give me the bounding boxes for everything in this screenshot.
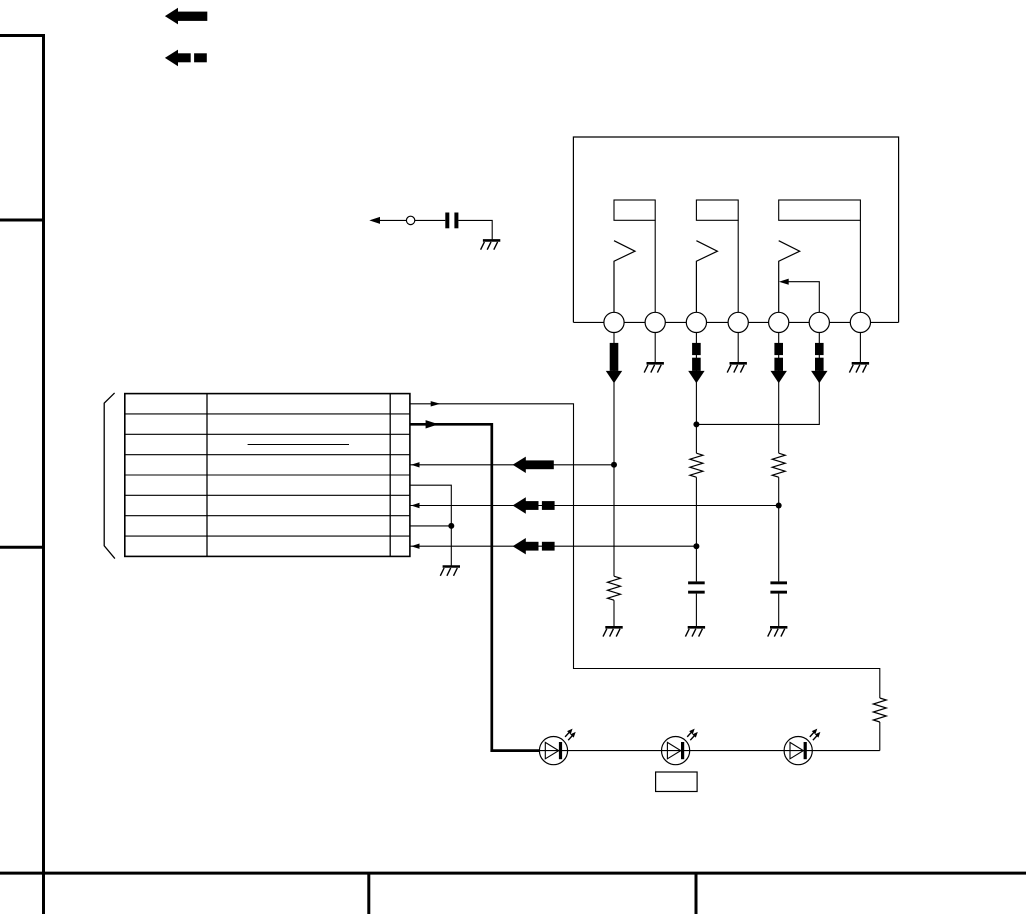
- pin 7: [850, 312, 870, 332]
- switch S1: [614, 241, 635, 313]
- pin 4: [728, 312, 748, 332]
- resistor R3: [772, 453, 785, 477]
- control wire with arrow into S3: [788, 282, 819, 313]
- ground (pin4): [727, 363, 747, 372]
- wire row7: connector to ground rail: [410, 525, 451, 527]
- wire: output lead with arrow (top test circuit): [377, 219, 406, 221]
- head coil H2: [696, 200, 738, 220]
- wire: [879, 722, 881, 751]
- wire: [613, 600, 615, 626]
- head coil H1: [614, 200, 655, 220]
- resistor R2: [690, 453, 703, 477]
- head coil H3: [779, 200, 861, 220]
- wire row1: connector to LED loop: [410, 404, 880, 698]
- node dot (pin5 / row6): [776, 503, 782, 509]
- wire pin7 to ground: [859, 333, 861, 363]
- wire: [737, 220, 739, 312]
- capacitor C1: [445, 213, 458, 229]
- LED D2: [662, 727, 700, 765]
- wire: [859, 220, 861, 312]
- IC bottom edge / pin row line: [573, 321, 898, 323]
- wire: [778, 477, 780, 581]
- dashed flow arrow on row6: [513, 497, 555, 513]
- switch S3: [779, 241, 800, 313]
- LED chain wire: [540, 750, 880, 752]
- pin 1: [604, 312, 624, 332]
- wire: [695, 594, 697, 627]
- ground (pin1 branch): [603, 627, 623, 636]
- capacitor C3: [770, 581, 787, 593]
- wire: [458, 220, 492, 239]
- LED D1: [539, 727, 577, 765]
- ground (pin7): [849, 363, 869, 372]
- dashed flow arrow below pin5: [771, 343, 787, 383]
- terminal circle (test point): [406, 216, 414, 224]
- wire row4: connector to pin1 node: [410, 464, 614, 466]
- wire pin1 down: [613, 333, 615, 577]
- capacitor C2: [688, 581, 705, 593]
- wire row2 thick: connector to LED chain: [410, 424, 540, 750]
- wire: [695, 477, 697, 581]
- wire row6: connector to pin5 node: [410, 505, 779, 507]
- solid flow arrow on row4: [513, 457, 554, 473]
- wire pin4 to ground: [737, 333, 739, 363]
- wire pin5 down: [778, 333, 780, 454]
- ground (rows 5,7): [440, 567, 460, 576]
- ground (pin5 branch): [768, 627, 788, 636]
- label box under D2: [656, 772, 698, 792]
- resistor R1: [608, 576, 621, 600]
- solid flow arrow below pin1: [606, 343, 622, 383]
- row3 inner link line: [248, 444, 349, 446]
- dashed flow arrow below pin3: [688, 343, 704, 383]
- wire: [415, 219, 446, 221]
- ground (pin3 branch): [685, 627, 705, 636]
- arrow row8 at connector: [411, 544, 420, 549]
- wire pin2 to ground: [654, 333, 656, 363]
- pin 2: [645, 312, 665, 332]
- legend dashed arrow: [165, 50, 207, 67]
- node dot (pin3 / row8): [693, 543, 699, 549]
- connector left brace: [104, 393, 115, 559]
- arrow row6 at connector: [411, 503, 420, 508]
- LED D3: [784, 727, 822, 765]
- pin 5: [769, 312, 789, 332]
- wire: [654, 220, 656, 312]
- dashed flow arrow on row8: [513, 538, 555, 554]
- wire row8: connector to pin3 node: [410, 545, 697, 547]
- arrow row1 (out): [431, 401, 441, 406]
- connector CN1 body: [125, 394, 410, 557]
- arrow row4 at connector: [411, 462, 420, 467]
- node dot (pin1 / row4): [611, 462, 617, 468]
- node dot (pin3 / pin6 wire): [693, 421, 699, 427]
- connector CN1 row lines: [125, 414, 410, 536]
- dashed flow arrow below pin6: [811, 343, 827, 383]
- pin 3: [686, 312, 706, 332]
- resistor R4: [873, 698, 886, 722]
- wire pin3 down: [695, 333, 697, 454]
- wire: [778, 594, 780, 627]
- switch S2: [696, 241, 717, 313]
- legend solid arrow: [165, 8, 207, 25]
- wire pin6 down and over to pin3 node: [696, 333, 819, 425]
- node dot (row7 / ground rail): [448, 523, 454, 529]
- pin 6: [809, 312, 829, 332]
- wire row5: connector to ground rail: [410, 485, 451, 566]
- connector CN1 column divider: [206, 394, 208, 557]
- ground (top test circuit): [481, 240, 501, 249]
- IC U1 box: [573, 137, 898, 322]
- arrow row2 (out, bold): [426, 420, 439, 428]
- connector CN1 pin column divider: [389, 394, 391, 557]
- ground (pin2): [644, 363, 664, 372]
